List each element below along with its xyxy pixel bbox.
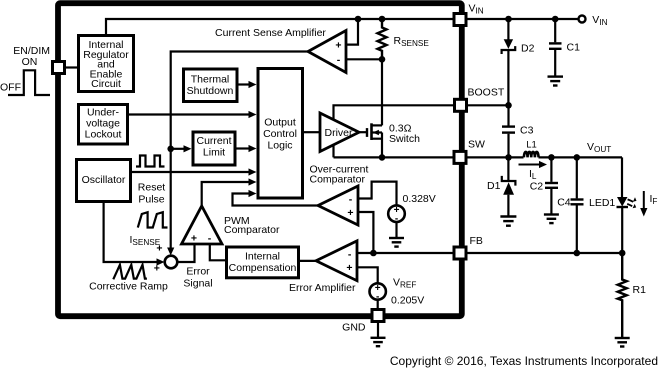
- svg-text:Limit: Limit: [203, 147, 225, 159]
- svg-text:+: +: [156, 243, 162, 255]
- svg-text:Lockout: Lockout: [85, 129, 122, 141]
- wire switch source to SW line: [379, 133, 386, 161]
- pin SW: [454, 139, 485, 164]
- svg-text:VIN: VIN: [469, 3, 484, 16]
- wire error amp - input to FB: [357, 250, 454, 257]
- svg-text:OFF: OFF: [0, 82, 21, 94]
- node C4 / FB junction: [574, 250, 581, 257]
- ground below C1: [548, 77, 564, 86]
- node C2 junction: [548, 154, 555, 161]
- svg-text:C4: C4: [557, 197, 571, 209]
- svg-text:Compensation: Compensation: [229, 262, 297, 274]
- external FB wire: [466, 250, 626, 257]
- diode D2: [502, 19, 535, 105]
- wire Internal Compensation to error amp output: [299, 260, 317, 262]
- svg-text:Error: Error: [186, 266, 210, 278]
- ground below GND pin: [371, 322, 386, 347]
- wire over-current output to OCL: [233, 190, 319, 206]
- svg-text:IL: IL: [529, 168, 537, 181]
- svg-text:Error Amplifier: Error Amplifier: [289, 282, 356, 294]
- label Error Signal: [183, 266, 212, 290]
- IF arrow: [640, 191, 657, 217]
- svg-text:C2: C2: [530, 181, 544, 193]
- capacitor C2: [530, 157, 558, 214]
- svg-text:0.205V: 0.205V: [391, 295, 424, 307]
- label Current Sense Amplifier: [215, 27, 326, 39]
- external BOOST wire: [467, 102, 512, 109]
- wire error amp + input to VREF: [357, 267, 378, 283]
- block Internal Compensation: [227, 247, 299, 278]
- node LED1 / R1 FB junction: [619, 250, 626, 257]
- copyright note: [390, 354, 658, 368]
- svg-text:C3: C3: [520, 125, 534, 137]
- svg-text:Logic: Logic: [267, 140, 292, 152]
- wire Internal Regulator top to VIN pin: [106, 19, 453, 36]
- node C4 / VOUT junction: [574, 154, 581, 161]
- wire Thermal Shutdown to OCL: [238, 81, 257, 88]
- svg-text:Shutdown: Shutdown: [187, 85, 234, 97]
- op-amp current sense amplifier: [308, 31, 346, 73]
- svg-text:C1: C1: [567, 42, 581, 54]
- svg-text:Copyright © 2016, Texas Instru: Copyright © 2016, Texas Instruments Inco…: [390, 354, 658, 368]
- capacitor C1: [549, 19, 580, 77]
- capacitor C4: [557, 157, 583, 253]
- wire Current Limit to OCL: [236, 145, 257, 152]
- svg-text:-: -: [348, 248, 352, 260]
- summing junction: [154, 243, 178, 275]
- wire CSA - input to RSENSE bottom: [346, 56, 385, 63]
- node D2 / VIN rail junction: [505, 16, 512, 23]
- svg-text:+: +: [191, 233, 197, 245]
- ground below 0.328V: [389, 222, 404, 247]
- wire CSA output to ISENSE line: [167, 52, 308, 256]
- svg-text:D2: D2: [521, 42, 535, 54]
- svg-text:Reset: Reset: [138, 182, 166, 194]
- block Internal Regulator and Enable Circuit: [79, 36, 134, 92]
- svg-text:Thermal: Thermal: [191, 74, 230, 86]
- pin BOOST: [455, 87, 505, 112]
- wire PWM output to OCL: [202, 178, 257, 206]
- node D2 / C3 BOOST junction: [505, 102, 512, 109]
- node C1 / VIN rail junction: [552, 16, 559, 23]
- resistor RSENSE: [378, 16, 430, 60]
- svg-text:+: +: [347, 207, 353, 219]
- node RSENSE bottom junction: [379, 56, 386, 63]
- block Oscillator: [77, 160, 131, 202]
- comparator over-current: [318, 186, 358, 225]
- waveform ISENSE: [130, 212, 168, 247]
- svg-text:GND: GND: [342, 322, 366, 334]
- svg-text:Switch: Switch: [389, 133, 420, 145]
- svg-text:BOOST: BOOST: [468, 87, 505, 99]
- IL arrow: [519, 161, 548, 181]
- wire EN/DIM to Internal Regulator: [65, 66, 79, 68]
- wire BOOST to driver top: [334, 105, 454, 120]
- svg-text:IF: IF: [650, 193, 658, 206]
- svg-text:Corrective Ramp: Corrective Ramp: [89, 281, 168, 293]
- svg-text:R1: R1: [633, 284, 647, 296]
- svg-text:Pulse: Pulse: [138, 194, 164, 206]
- terminal VIN external: [579, 14, 608, 27]
- svg-text:LED1: LED1: [589, 197, 615, 209]
- node RSENSE top junction: [379, 16, 386, 23]
- external VIN rail: [466, 16, 578, 23]
- svg-text:Current: Current: [196, 135, 231, 147]
- resistor R1: [618, 253, 646, 338]
- node C3 / D1 SW junction: [505, 154, 512, 161]
- wire PWM - input to Internal Compensation: [210, 244, 227, 260]
- capacitor C3: [502, 105, 534, 157]
- node switch source / SW rail junction: [379, 154, 386, 161]
- wire RSENSE to switch drain: [381, 59, 383, 125]
- node error amp- / over-current+ FB junction: [370, 250, 377, 257]
- svg-text:Signal: Signal: [183, 277, 212, 289]
- svg-text:ON: ON: [22, 56, 38, 68]
- svg-text:Control: Control: [263, 128, 297, 140]
- svg-text:VREF: VREF: [393, 277, 416, 290]
- svg-text:Oscillator: Oscillator: [82, 174, 126, 186]
- svg-text:Current Sense Amplifier: Current Sense Amplifier: [215, 27, 326, 39]
- ground below C2: [544, 215, 559, 224]
- wire UVL to OCL: [129, 111, 257, 118]
- arrowhead into summing junction (ISENSE): [167, 248, 174, 256]
- label Over-current Comparator: [310, 164, 369, 186]
- pin VIN (top right): [454, 3, 484, 26]
- svg-text:voltage: voltage: [86, 118, 120, 130]
- svg-text:L1: L1: [526, 139, 537, 150]
- op-amp error amplifier: [289, 241, 357, 294]
- svg-text:VIN: VIN: [592, 14, 607, 27]
- IC boundary box: [58, 3, 462, 316]
- svg-text:Internal: Internal: [245, 251, 280, 263]
- svg-text:SW: SW: [468, 139, 485, 151]
- op-amp driver U-drv: [320, 113, 359, 152]
- node ISENSE branch to Current Limit: [167, 145, 191, 152]
- comparator PWM: [182, 206, 223, 245]
- wire over-current + input to FB line: [358, 212, 373, 253]
- wire driver bottom to SW rail: [332, 145, 334, 158]
- svg-text:RSENSE: RSENSE: [394, 35, 430, 48]
- block Output Control Logic: [258, 69, 303, 199]
- EN/DIM ON/OFF waveform: [0, 56, 50, 95]
- svg-text:-: -: [208, 233, 212, 245]
- svg-text:Circuit: Circuit: [91, 78, 121, 90]
- ground below D1: [500, 217, 516, 226]
- block Current Limit: [193, 132, 235, 165]
- pin EN/DIM: [13, 45, 64, 74]
- source 0.328V: [388, 193, 436, 224]
- source VREF 0.205V: [370, 277, 425, 307]
- waveform corrective ramp: [89, 265, 168, 293]
- wire summing junction to PWM + input: [177, 244, 194, 262]
- wire oscillator to summing junction (corrective ramp): [104, 202, 165, 266]
- pin FB: [454, 235, 483, 259]
- wire Oscillator to OCL: [132, 168, 257, 175]
- wire VOUT corner down to LED1: [621, 157, 623, 197]
- resistor RSENSE zigzag: [378, 19, 387, 59]
- ground below R1: [615, 338, 630, 347]
- svg-text:Comparator: Comparator: [310, 174, 366, 186]
- svg-text:Driver: Driver: [325, 127, 354, 139]
- inductor L1: [524, 139, 539, 157]
- svg-text:VOUT: VOUT: [587, 141, 611, 154]
- wire OCL to Driver: [304, 131, 320, 133]
- wire SW rail inside: [334, 156, 455, 158]
- pin GND: [342, 310, 384, 334]
- reset pulse waveform: [136, 156, 165, 206]
- external SW wire with L1: [466, 154, 524, 161]
- svg-text:FB: FB: [470, 235, 483, 247]
- svg-text:Output: Output: [264, 117, 296, 129]
- wire CSA + input to VIN rail: [346, 16, 361, 45]
- transistor 0.3 ohm switch: [359, 123, 420, 146]
- node CSA+ / VIN rail junction: [355, 16, 362, 23]
- svg-text:0.328V: 0.328V: [403, 193, 436, 205]
- diode D1 (catch diode): [487, 157, 515, 216]
- svg-text:Comparator: Comparator: [224, 224, 280, 236]
- svg-text:+: +: [346, 262, 352, 274]
- LED light arrows: [627, 197, 636, 208]
- svg-text:-: -: [349, 194, 353, 206]
- wire over-current - input to 0.328V: [358, 182, 397, 206]
- block Thermal Shutdown: [184, 69, 238, 102]
- wire L1 to VOUT node: [539, 141, 623, 161]
- block Under-voltage Lockout: [79, 105, 128, 145]
- LED LED1: [589, 197, 628, 253]
- wire VREF to GND pin: [377, 300, 379, 311]
- label PWM Comparator: [224, 215, 280, 236]
- svg-text:+: +: [335, 40, 341, 52]
- svg-text:Under-: Under-: [87, 106, 120, 118]
- svg-text:-: -: [337, 54, 341, 66]
- svg-text:D1: D1: [487, 180, 501, 192]
